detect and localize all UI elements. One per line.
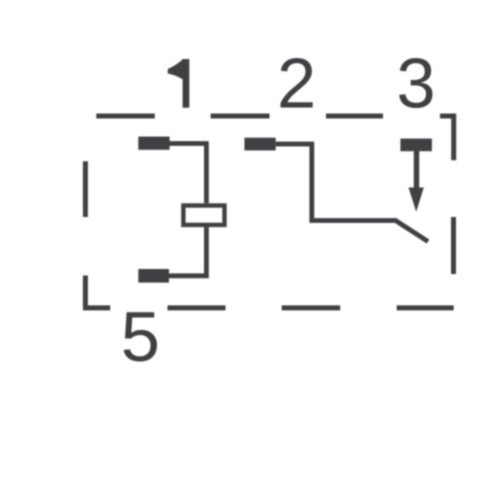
- svg-text:3: 3: [396, 44, 435, 123]
- svg-text:5: 5: [121, 297, 160, 376]
- svg-text:2: 2: [277, 44, 316, 123]
